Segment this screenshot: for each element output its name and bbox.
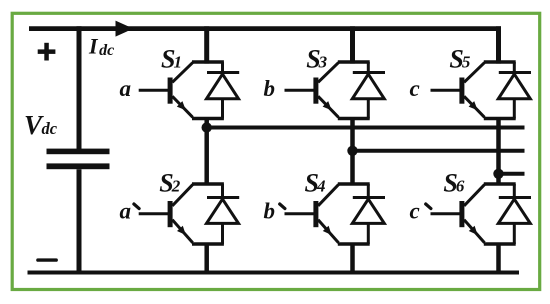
wire leg b bottom stub to DC- bus <box>350 243 355 273</box>
wire S5 emitter bar (bottom) <box>484 117 516 120</box>
wire leg c bottom stub to DC- bus <box>496 243 501 273</box>
transistor S4 (IGBT) <box>285 185 339 243</box>
wire S2 collector bar (top) <box>192 182 224 185</box>
svg-text:c: c <box>410 76 420 101</box>
node phase c junction <box>493 169 503 179</box>
svg-text:S3: S3 <box>306 44 327 73</box>
node phase a junction <box>202 122 212 132</box>
label - negative terminal <box>36 258 58 261</box>
wire S6 collector bar (top) <box>484 182 516 185</box>
node phase b junction <box>347 146 357 156</box>
label b` prime mark <box>280 204 285 209</box>
wire S3 emitter bar (bottom) <box>338 117 370 120</box>
wire S2 emitter bar (bottom) <box>192 242 224 245</box>
diode D5 antiparallel <box>498 62 531 119</box>
capacitor C bottom plate <box>47 163 110 169</box>
svg-text:S1: S1 <box>161 44 182 73</box>
wire leg b top stub from DC+ bus <box>350 26 355 63</box>
svg-text:Idc: Idc <box>88 33 114 59</box>
wire S3 collector bar (top) <box>338 60 370 63</box>
wire top DC bus <box>29 26 501 31</box>
wire bottom DC bus <box>28 271 520 275</box>
svg-text:Vdc: Vdc <box>24 110 58 140</box>
svg-text:S5: S5 <box>449 44 470 73</box>
label c` prime mark <box>426 204 431 209</box>
transistor S1 (IGBT) <box>139 63 193 118</box>
svg-text:c: c <box>410 198 420 223</box>
wire phase b output rail <box>353 149 525 153</box>
wire leg c top stub from DC+ bus <box>496 26 501 63</box>
diode D4 antiparallel <box>352 184 385 244</box>
diode D1 antiparallel <box>207 62 240 119</box>
wire S1 collector bar (top) <box>192 60 224 63</box>
wire S6 emitter bar (bottom) <box>484 242 516 245</box>
wire leg a top stub from DC+ bus <box>204 26 209 63</box>
arrow Idc current direction <box>116 21 134 37</box>
svg-text:b: b <box>264 198 276 223</box>
svg-text:S4: S4 <box>305 168 326 197</box>
wire S1 emitter bar (bottom) <box>192 117 224 120</box>
transistor S6 (IGBT) <box>431 185 485 243</box>
diode D3 antiparallel <box>352 62 385 119</box>
wire phase a output rail <box>207 126 525 130</box>
wire S4 emitter bar (bottom) <box>338 242 370 245</box>
wire left rail upper (Vdc+) <box>77 26 82 149</box>
wire leg a midpoint vertical <box>204 117 209 185</box>
svg-text:b: b <box>264 76 276 101</box>
capacitor C top plate <box>47 149 110 155</box>
wire left rail lower (Vdc-) <box>77 169 82 274</box>
diode D2 antiparallel <box>207 184 240 244</box>
diode D6 antiparallel <box>498 184 531 244</box>
wire leg a bottom stub to DC- bus <box>204 243 209 273</box>
label + positive terminal <box>38 43 56 61</box>
wire S5 collector bar (top) <box>484 60 516 63</box>
wire S4 collector bar (top) <box>338 182 370 185</box>
svg-text:a: a <box>120 198 132 223</box>
transistor S3 (IGBT) <box>285 63 339 118</box>
wire phase c output rail <box>499 172 525 176</box>
svg-text:S2: S2 <box>159 168 180 197</box>
wire leg c midpoint vertical <box>496 117 501 185</box>
label a` prime mark <box>134 204 139 209</box>
transistor S5 (IGBT) <box>431 63 485 118</box>
wire leg b midpoint vertical <box>350 117 355 185</box>
svg-text:a: a <box>120 76 132 101</box>
svg-text:S6: S6 <box>443 168 464 197</box>
transistor S2 (IGBT) <box>139 185 193 243</box>
